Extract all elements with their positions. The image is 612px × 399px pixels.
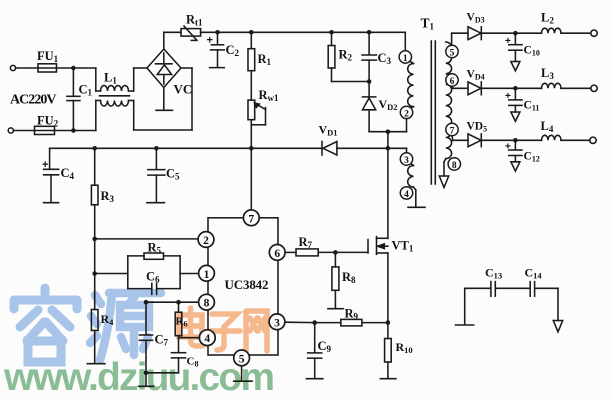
ground bridge (163, 88, 165, 111)
wire (515, 32, 541, 34)
svg-text:R7: R7 (299, 235, 313, 250)
svg-text:C2: C2 (226, 43, 240, 58)
svg-text:C10: C10 (524, 45, 540, 58)
capacitor C1 (72, 68, 74, 96)
wire (94, 274, 96, 310)
capacitor C14 (529, 282, 531, 297)
inductor L4 (542, 135, 562, 140)
wire (191, 68, 193, 130)
svg-text:L2: L2 (541, 11, 554, 26)
node junction drain column rail (386, 146, 391, 151)
svg-text:2: 2 (404, 109, 409, 119)
transformer secondary winding (446, 42, 452, 159)
pin 1 (199, 265, 215, 281)
svg-text:8: 8 (452, 161, 457, 171)
wire (201, 31, 218, 33)
wire (515, 87, 541, 89)
capacitor C4 (49, 148, 51, 169)
op-amp U1 UC3842 box (208, 218, 278, 355)
svg-text:C5: C5 (166, 167, 180, 182)
svg-text:Rw1: Rw1 (259, 88, 280, 103)
capacitor C5 (155, 148, 157, 169)
resistor R7 (296, 249, 318, 256)
wire (50, 147, 322, 149)
pin 8 (199, 294, 215, 310)
terminal input bottom (8, 128, 13, 133)
terminal output 3 (590, 137, 596, 143)
pin 2 (198, 232, 214, 248)
svg-text:C4: C4 (61, 166, 75, 181)
svg-text:3: 3 (404, 156, 409, 166)
resistor R2 (331, 32, 333, 45)
wire (163, 32, 165, 49)
pin circle 6 (446, 74, 458, 86)
svg-text:5: 5 (239, 353, 245, 365)
node junction pin2 wire (92, 237, 97, 242)
watermark char yuan (90, 293, 161, 360)
wire (94, 239, 96, 274)
wire (57, 67, 74, 69)
resistor R9 (341, 319, 362, 326)
wire (451, 86, 454, 88)
pin 7 (243, 210, 259, 226)
wire (387, 132, 389, 239)
capacitor C11 (514, 88, 516, 99)
svg-text:+: + (207, 35, 213, 47)
svg-text:C3: C3 (378, 51, 392, 66)
resistor R10 (387, 323, 389, 339)
watermark char zi (208, 314, 240, 350)
ground C2 (210, 67, 225, 69)
svg-text:7: 7 (248, 213, 254, 225)
wire (388, 147, 407, 149)
wire (369, 31, 405, 33)
svg-text:R1: R1 (258, 52, 272, 67)
node junction C10 (513, 31, 518, 36)
pin circle 1 (399, 51, 411, 63)
diode VD1 (321, 142, 323, 156)
capacitor C12 (514, 140, 516, 149)
pin circle 5 (446, 45, 458, 57)
svg-text:VD1: VD1 (319, 123, 338, 138)
resistor R4 (91, 310, 98, 331)
node junction snubber (386, 129, 391, 134)
node junction C1 top (71, 66, 76, 71)
ground transformer pin4 (408, 206, 425, 208)
ground C13 left (464, 288, 466, 324)
wire (133, 68, 135, 91)
wire (95, 238, 198, 240)
wire (387, 253, 389, 323)
watermark char rong (14, 288, 77, 362)
capacitor C9 (314, 323, 316, 353)
node junction C7 bottom (144, 371, 149, 376)
diode VD4 (468, 82, 481, 95)
wire (369, 131, 406, 133)
svg-text:1: 1 (204, 269, 210, 281)
svg-text:C9: C9 (318, 339, 332, 354)
svg-text:8: 8 (204, 298, 210, 310)
wire (73, 130, 95, 132)
ground pin5 (241, 366, 243, 381)
ground R8 (328, 308, 343, 310)
node junction R3 top (92, 146, 97, 151)
wire (465, 287, 490, 289)
earth arrow C10 (511, 62, 520, 71)
svg-text:AC220V: AC220V (10, 93, 57, 108)
svg-text:T1: T1 (421, 16, 435, 32)
ground R4 (87, 363, 105, 365)
diode VD3 (468, 27, 481, 40)
svg-text:4: 4 (204, 333, 210, 345)
wire (285, 321, 315, 323)
svg-text:VD5: VD5 (467, 121, 488, 134)
wire (16, 67, 38, 69)
ground C5 (147, 202, 165, 204)
resistor R8 (334, 252, 336, 267)
svg-text:VD4: VD4 (467, 69, 485, 82)
wire (95, 68, 97, 91)
svg-text:L1: L1 (104, 71, 117, 86)
node junction R8 top (333, 250, 338, 255)
node junction C1 bottom (71, 128, 76, 133)
svg-text:R8: R8 (342, 270, 356, 285)
node junction C7 top (144, 300, 149, 305)
diode VD5 (468, 134, 481, 147)
capacitor C10 (514, 33, 516, 44)
diode VD2 (368, 82, 370, 97)
svg-text:+: + (505, 91, 511, 102)
wire (127, 256, 129, 289)
wire (285, 251, 296, 253)
svg-text:C13: C13 (485, 266, 502, 281)
wire (179, 337, 200, 339)
capacitor C3 (368, 32, 370, 54)
wire (218, 31, 252, 33)
svg-text:FU1: FU1 (37, 49, 59, 64)
earth arrow secondary (439, 176, 448, 188)
wire (13, 130, 34, 132)
transformer T1 core (430, 41, 432, 184)
wire (95, 101, 97, 131)
transistor VT1 (367, 240, 369, 253)
svg-text:+: + (505, 141, 511, 152)
wire (515, 139, 541, 141)
wire (561, 87, 591, 89)
svg-text:UC3842: UC3842 (225, 277, 269, 292)
resistor R6 (178, 302, 180, 312)
node junction C9 top (312, 320, 317, 325)
svg-text:R2: R2 (339, 48, 353, 63)
pin circle 7 (446, 123, 458, 135)
wire (561, 139, 590, 141)
fuse FU1 (38, 64, 57, 72)
capacitor C7 (145, 302, 147, 335)
capacitor C2 (217, 32, 219, 44)
svg-text:R5: R5 (148, 241, 162, 256)
svg-text:R3: R3 (101, 189, 115, 204)
earth arrow C11 (511, 112, 520, 121)
inductor L2 (542, 28, 562, 33)
pin circle 8 (448, 158, 460, 170)
svg-text:C1: C1 (79, 83, 93, 98)
svg-text:2: 2 (203, 235, 209, 247)
svg-text:6: 6 (274, 248, 280, 260)
node junction R1 (249, 30, 254, 35)
node junction VD2 top (367, 79, 372, 84)
svg-text:+: + (505, 36, 511, 47)
fuse FU2 (35, 126, 55, 134)
wire (73, 67, 95, 69)
svg-text:Rt1: Rt1 (186, 13, 203, 28)
svg-text:C6: C6 (146, 270, 160, 285)
svg-text:VD3: VD3 (467, 12, 485, 25)
svg-text:R9: R9 (345, 307, 359, 322)
ground R10 (380, 378, 396, 380)
thermistor Rt1 (181, 29, 201, 36)
capacitor C8 (171, 352, 185, 354)
wire (451, 136, 454, 141)
pin circle 3 (400, 153, 412, 165)
svg-text:FU2: FU2 (37, 114, 59, 129)
svg-text:3: 3 (274, 317, 280, 329)
wire (133, 101, 135, 131)
node junction C12 (513, 138, 518, 143)
node junction C3 (367, 30, 372, 35)
terminal output 2 (591, 85, 597, 91)
watermark char wang (246, 311, 267, 351)
pin 3 (269, 314, 285, 330)
inductor L1 core bar (100, 95, 130, 97)
inductor L1 top winding (101, 86, 129, 91)
wire (251, 31, 331, 33)
pin 5 (234, 350, 250, 366)
svg-text:VD2: VD2 (379, 97, 398, 112)
pin circle 4 (400, 187, 412, 199)
node junction C2 (215, 30, 220, 35)
inductor L1 bottom winding (101, 101, 129, 107)
transformer primary winding 3-4 (408, 166, 414, 188)
svg-text:C7: C7 (155, 333, 169, 348)
node junction pin1 wire (92, 271, 97, 276)
wire (250, 148, 252, 210)
wire (95, 273, 128, 275)
watermark char dian (179, 308, 205, 346)
wire (451, 33, 453, 45)
svg-text:VC: VC (174, 82, 193, 97)
pin 6 (269, 245, 285, 261)
ground C4 (44, 202, 59, 204)
potentiometer Rw1 (248, 100, 255, 120)
wire (180, 273, 198, 275)
wire (179, 256, 181, 289)
ground C7 (145, 373, 147, 386)
earth arrow C12 (511, 162, 520, 171)
earth arrow C14 right (557, 288, 559, 320)
resistor R3 (94, 148, 96, 185)
node junction C11 (513, 86, 518, 91)
svg-text:5: 5 (450, 49, 455, 59)
svg-text:4: 4 (404, 190, 409, 200)
capacitor C13 (490, 282, 492, 297)
bridge rectifier VC (147, 49, 181, 88)
svg-text:C11: C11 (524, 100, 540, 113)
capacitor C6 (128, 288, 151, 290)
svg-text:1: 1 (403, 54, 408, 64)
terminal output 1 (591, 30, 597, 36)
node junction R2 (329, 30, 334, 35)
node junction C5 top (154, 146, 159, 151)
terminal input top (10, 65, 15, 70)
node junction R10 top (386, 320, 391, 325)
svg-text:C12: C12 (524, 151, 540, 164)
resistor R1 (250, 32, 252, 48)
wire (561, 32, 591, 34)
inductor L3 (542, 83, 562, 88)
node junction R6 top (176, 300, 181, 305)
svg-text:VT1: VT1 (392, 239, 414, 254)
pin circle 2 (400, 106, 412, 118)
svg-text:L3: L3 (541, 66, 554, 81)
pin 4 (199, 330, 215, 346)
node junction pin7 column (249, 146, 254, 151)
wire (332, 31, 370, 33)
ground C9 (306, 378, 323, 380)
transformer primary winding 1-2 (408, 64, 414, 107)
svg-text:L4: L4 (541, 119, 554, 134)
svg-text:+: + (42, 159, 48, 171)
resistor R5 (128, 255, 144, 257)
wire (146, 301, 199, 303)
svg-text:R10: R10 (396, 340, 413, 355)
svg-text:C14: C14 (525, 266, 543, 281)
wire (55, 130, 74, 132)
watermark url www.dziuu.com (3, 356, 275, 399)
